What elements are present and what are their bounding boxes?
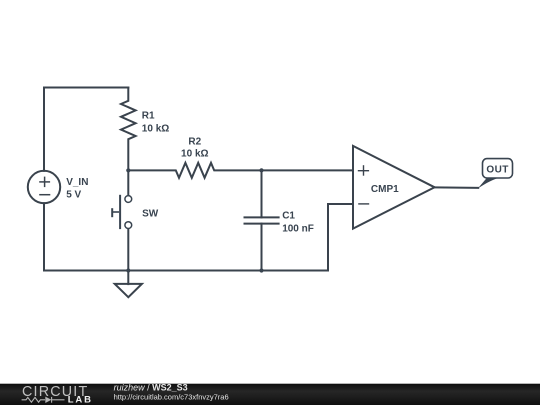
svg-text:10 kΩ: 10 kΩ <box>142 124 169 135</box>
svg-text:10 kΩ: 10 kΩ <box>181 149 208 160</box>
svg-text:LAB: LAB <box>68 394 93 405</box>
svg-text:C1: C1 <box>282 210 295 221</box>
svg-text:R1: R1 <box>142 110 155 121</box>
svg-text:100 nF: 100 nF <box>282 223 314 234</box>
svg-text:ruizhew / WS2_S3: ruizhew / WS2_S3 <box>114 383 188 393</box>
svg-text:http://circuitlab.com/c73xfnvz: http://circuitlab.com/c73xfnvzy7ra6 <box>114 393 229 402</box>
svg-text:5 V: 5 V <box>66 190 81 201</box>
svg-text:OUT: OUT <box>486 165 508 176</box>
svg-text:V_IN: V_IN <box>66 177 88 188</box>
svg-text:R2: R2 <box>188 136 201 147</box>
svg-text:CMP1: CMP1 <box>371 184 399 195</box>
svg-text:SW: SW <box>142 209 159 220</box>
